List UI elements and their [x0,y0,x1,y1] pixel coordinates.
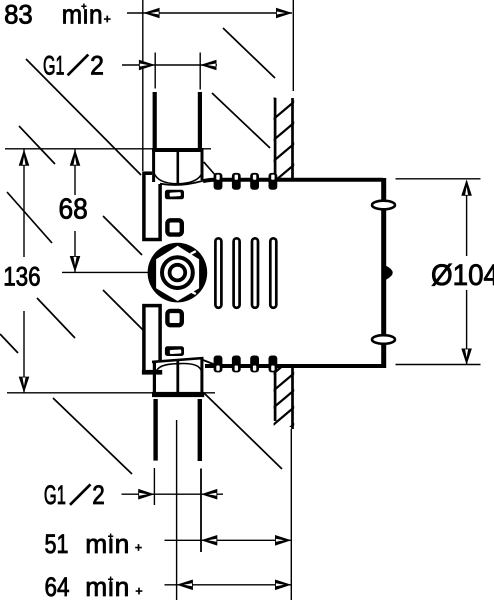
dimension 51 min [165,535,292,546]
svg-text:+: + [135,541,142,555]
disc ring notch upper right [191,251,196,254]
wall section bottom [273,356,295,443]
union nut top [152,148,204,185]
body right edge [381,178,386,368]
cartridge slots [215,238,276,307]
clamp top [165,190,184,200]
body bottom edge [205,364,383,368]
gasket bumps bottom edge [214,356,278,373]
extension line left (83 min, x=142.8) [142,0,144,171]
svg-text:68: 68 [59,194,88,226]
union nut bottom [142,358,204,397]
dimension G1/2 top [122,60,217,71]
casting connector bottom [203,360,215,365]
extension line bottom of assembly y=392.8 [7,392,215,394]
flange plate upper [144,173,160,239]
dimension 136 [19,149,30,393]
body top edge [203,180,383,182]
extension line centre y=272.4 [62,271,148,273]
pipe bottom right wall [198,399,202,461]
extension line wall face top (x=293.3) [292,0,294,91]
svg-text:G1: G1 [44,480,66,510]
hex nut inner ring [170,265,186,281]
clamp bottom [165,346,184,356]
hex nut white hexagon [156,246,199,301]
boss ellipse top right [372,201,395,210]
extension line G1/2 bottom right [200,469,202,553]
dimension G1/2 bottom [122,489,224,500]
svg-text:83: 83 [4,0,33,29]
pipe centreline bottom (x=176.6) [176,420,178,600]
pipe top left wall [153,92,157,149]
port square top [167,220,181,234]
dimension D104 [461,180,472,365]
hex nut outer ring [162,257,193,288]
extension line G1/2 top left [154,53,156,89]
wall section top [273,80,295,183]
pipe bottom left wall [153,399,157,461]
extension line D104 bottom [396,364,481,366]
svg-text:Ø104: Ø104 [431,259,494,292]
svg-text:+: + [136,584,143,598]
marker tab right middle [386,266,393,280]
dimension 64 min [165,580,292,591]
extension line D104 top [396,178,481,180]
extension line G1/2 bottom left [153,468,155,505]
svg-text:+: + [108,531,113,541]
svg-text:64: 64 [45,572,70,600]
port square bottom [167,311,181,325]
svg-text:2: 2 [90,50,104,80]
disc ring notch lower right [191,291,196,294]
dimension 68 [70,149,81,272]
extension line top of assembly y=148.8 [5,148,211,150]
svg-text:51: 51 [45,529,69,559]
gasket bumps top edge [214,173,278,190]
boss ellipse bottom right [372,335,395,344]
background hatch diagonals [0,28,282,474]
svg-text:2: 2 [92,480,105,510]
svg-text:136: 136 [3,262,41,292]
extension line wall face bottom [290,429,292,600]
flange plate lower [144,306,160,372]
dimension 83 min [127,8,292,19]
svg-text:+: + [108,574,113,584]
extension line G1/2 top right [199,53,201,90]
svg-text:G1: G1 [43,50,65,80]
svg-text:+: + [81,1,86,11]
svg-text:+: + [104,12,111,26]
pipe top right wall [198,92,202,149]
hex nut disc [148,243,208,303]
